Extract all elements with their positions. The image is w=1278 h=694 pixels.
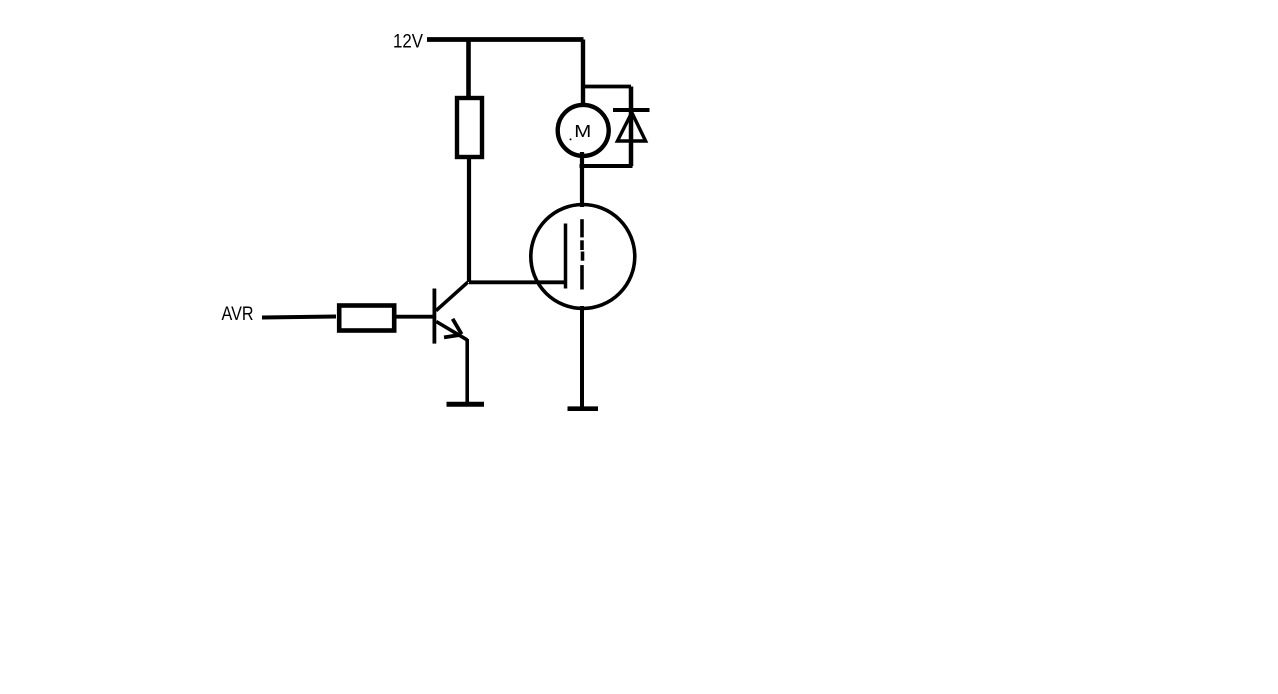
wire rail to motor	[581, 40, 585, 107]
svg-text:M: M	[574, 121, 591, 141]
svg-text:AVR: AVR	[222, 303, 254, 325]
wire R1 to collector node	[467, 159, 471, 282]
wire rail to resistor R1	[466, 40, 471, 97]
transistor Q1 emitter stroke	[436, 322, 467, 340]
wire motor to MOSFET Q2 drain	[580, 152, 584, 207]
wire AVR to resistor R2	[262, 317, 336, 318]
transistor Q1 collector stroke	[436, 282, 468, 311]
wire 12V rail	[427, 37, 584, 42]
MOSFET Q2 envelope circle	[531, 205, 635, 309]
stray mark inside motor body	[570, 138, 572, 140]
MOSFET Q2 gate plate	[564, 224, 568, 289]
wire motor node to diode D1 top	[583, 85, 631, 89]
svg-text:12V: 12V	[393, 32, 423, 53]
wire diode D1 bottom to motor bottom	[580, 164, 633, 168]
wire R2 to base of Q1	[397, 315, 434, 319]
diode D1 cathode bar	[613, 108, 650, 112]
resistor R2	[339, 306, 394, 331]
transistor Q1 base bar	[432, 289, 436, 344]
ground (emitter)	[447, 402, 485, 407]
transistor Q1 emitter arrowhead	[453, 319, 462, 334]
wire emitter to ground	[465, 339, 469, 404]
ground (Q2 source)	[568, 406, 599, 411]
motor M1 body	[558, 105, 609, 156]
diode D1 vertical lead	[629, 87, 634, 167]
wire collector node to gate of Q2	[469, 280, 566, 284]
MOSFET Q2 dashed channel	[580, 219, 584, 237]
diode D1 triangle	[617, 113, 645, 142]
wire Q2 source to ground	[580, 306, 584, 409]
resistor R1	[457, 98, 482, 157]
